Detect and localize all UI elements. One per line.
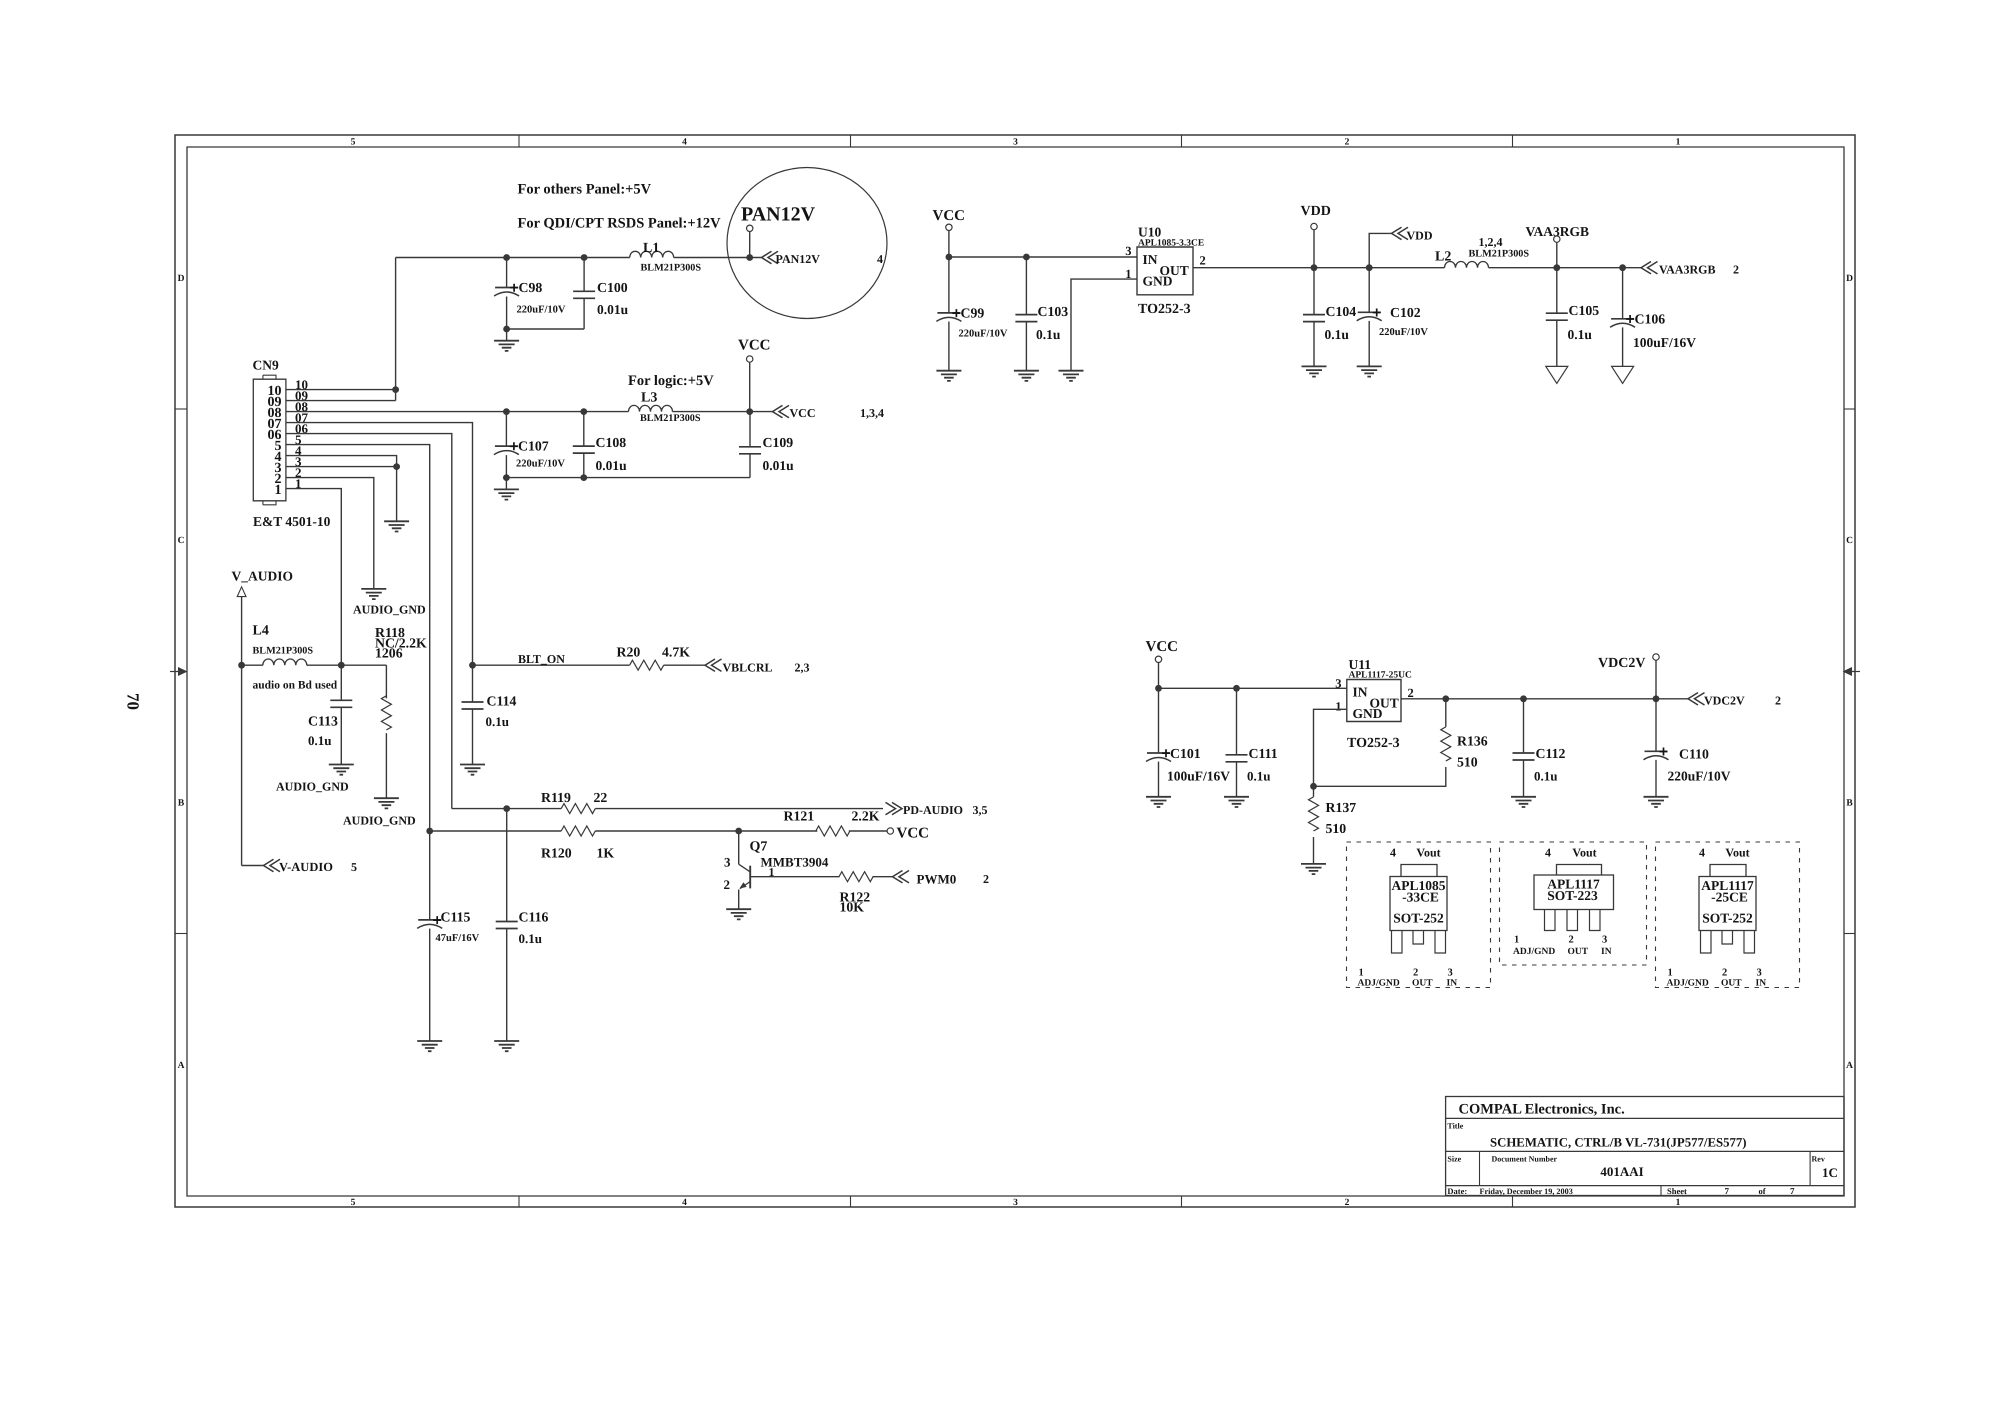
page number 70 — [124, 693, 143, 710]
inductor L1 — [630, 241, 702, 274]
note audio on Bd used — [253, 680, 338, 692]
svg-text:VAA3RGB: VAA3RGB — [1659, 263, 1715, 277]
resistor R118 — [375, 625, 427, 798]
inductor L2 — [1435, 235, 1529, 268]
svg-text:10K: 10K — [840, 900, 865, 915]
svg-text:0.1u: 0.1u — [1247, 769, 1270, 784]
transistor Q7 — [724, 831, 829, 909]
svg-text:Date:: Date: — [1447, 1186, 1467, 1196]
svg-text:ADJ/GND: ADJ/GND — [1667, 979, 1709, 989]
power symbol VCC at U10 — [933, 208, 966, 260]
svg-text:47uF/16V: 47uF/16V — [436, 933, 480, 944]
svg-text:Size: Size — [1447, 1155, 1461, 1164]
zone row dividers left band — [175, 409, 187, 934]
svg-text:Q7: Q7 — [750, 840, 768, 855]
svg-text:SOT-223: SOT-223 — [1547, 888, 1598, 903]
svg-text:APL1085-3.3CE: APL1085-3.3CE — [1138, 238, 1204, 248]
svg-text:2: 2 — [724, 877, 731, 892]
regulator U10 — [1125, 225, 1206, 318]
svg-text:R20: R20 — [617, 645, 641, 660]
wire V-AUDIO stub — [242, 865, 264, 867]
svg-text:C: C — [1846, 536, 1853, 546]
svg-text:BLM21P300S: BLM21P300S — [253, 646, 314, 657]
svg-text:B: B — [1846, 799, 1853, 809]
svg-text:VDC2V: VDC2V — [1598, 656, 1645, 671]
svg-text:3: 3 — [1013, 1198, 1018, 1208]
wire VCC to U11 IN — [1159, 687, 1347, 689]
zone column dividers bottom band — [519, 1196, 1513, 1207]
svg-text:401AAI: 401AAI — [1600, 1164, 1643, 1179]
package drawing APL1085-33CE SOT-252 — [1347, 842, 1491, 989]
svg-text:L3: L3 — [641, 391, 657, 406]
capacitor C108 — [573, 408, 627, 477]
connector CN9 pin labels outside — [295, 377, 309, 491]
PAN12V highlight circle — [727, 168, 887, 319]
svg-text:4: 4 — [1390, 846, 1396, 860]
svg-text:VCC: VCC — [1146, 639, 1179, 655]
svg-text:OUT: OUT — [1721, 979, 1742, 989]
wire R136 bottom to R137 junction — [1314, 767, 1446, 786]
svg-text:3: 3 — [724, 855, 731, 870]
svg-text:audio on Bd used: audio on Bd used — [253, 680, 338, 692]
ground below CN9 pins 4/3 — [384, 521, 409, 531]
capacitor C100 — [573, 254, 629, 329]
svg-text:C104: C104 — [1326, 304, 1357, 319]
ground below C99 — [936, 371, 961, 381]
wire U10 GND pin to ground — [1071, 279, 1137, 371]
wire VCC to U10 IN — [949, 256, 1137, 258]
package drawing APL1117-25CE SOT-252 — [1656, 842, 1800, 989]
svg-text:C114: C114 — [487, 694, 517, 709]
svg-text:70: 70 — [124, 693, 143, 710]
inductor L4 — [238, 624, 313, 669]
svg-text:TO252-3: TO252-3 — [1138, 302, 1191, 317]
svg-text:L1: L1 — [643, 241, 659, 256]
svg-text:SOT-252: SOT-252 — [1393, 911, 1444, 926]
svg-text:R137: R137 — [1326, 800, 1357, 815]
title block Title label — [1447, 1122, 1463, 1131]
svg-text:Friday, December 19, 2003: Friday, December 19, 2003 — [1480, 1187, 1573, 1196]
svg-text:1C: 1C — [1822, 1165, 1838, 1180]
svg-text:L4: L4 — [253, 624, 269, 639]
svg-text:0.1u: 0.1u — [308, 733, 331, 748]
svg-text:0.01u: 0.01u — [597, 302, 629, 317]
svg-text:VBLCRL: VBLCRL — [723, 661, 773, 675]
wire Q7 base to R122 — [750, 876, 892, 878]
ground below C107 — [494, 478, 519, 500]
wire +12V rail drop to CN9 pins 10/09 — [395, 258, 397, 401]
capacitor C110 — [1644, 699, 1731, 797]
svg-text:L2: L2 — [1435, 250, 1451, 265]
capacitor C107 — [494, 408, 566, 477]
svg-text:220uF/10V: 220uF/10V — [517, 305, 566, 316]
svg-text:510: 510 — [1457, 755, 1478, 770]
wire CN9 pin 2 to audio ground — [286, 478, 374, 589]
svg-text:Title: Title — [1447, 1122, 1463, 1131]
svg-text:0.1u: 0.1u — [486, 714, 509, 729]
svg-text:D: D — [178, 274, 185, 284]
right border center arrow — [1843, 667, 1861, 676]
svg-text:Vout: Vout — [1725, 846, 1749, 860]
capacitor C112 — [1513, 695, 1566, 796]
svg-text:OUT: OUT — [1412, 979, 1433, 989]
port VAA3RGB — [1641, 262, 1739, 277]
port VDC2V — [1688, 693, 1781, 708]
svg-text:1K: 1K — [597, 846, 615, 861]
wire R119 net — [452, 805, 883, 812]
svg-text:5: 5 — [351, 138, 356, 148]
zone row dividers right band — [1844, 409, 1855, 934]
svg-text:of: of — [1759, 1186, 1766, 1196]
power symbol VCC at U11 — [1146, 639, 1179, 692]
svg-text:2: 2 — [1722, 968, 1727, 979]
title block schematic title — [1490, 1136, 1747, 1150]
title block frame — [1446, 1097, 1844, 1196]
wire CN9 pin 06 to R119 — [286, 434, 452, 809]
svg-text:C: C — [178, 536, 185, 546]
svg-text:R121: R121 — [784, 809, 815, 824]
svg-text:C101: C101 — [1170, 746, 1201, 761]
svg-text:R120: R120 — [541, 846, 572, 861]
svg-text:PAN12V: PAN12V — [776, 252, 821, 266]
svg-text:C103: C103 — [1038, 304, 1069, 319]
capacitor C98 — [494, 254, 566, 329]
svg-text:2,3: 2,3 — [795, 661, 810, 675]
svg-text:SOT-252: SOT-252 — [1702, 911, 1753, 926]
svg-text:GND: GND — [1143, 274, 1173, 289]
wire CN9 pin 1 to L4 net — [286, 489, 341, 666]
svg-text:ADJ/GND: ADJ/GND — [1513, 947, 1555, 957]
svg-text:1,2,4: 1,2,4 — [1479, 235, 1503, 249]
wire U10 OUT to VAA3RGB — [1193, 267, 1641, 269]
title block Document Number label — [1492, 1155, 1558, 1164]
svg-text:U10: U10 — [1138, 225, 1161, 240]
svg-text:1: 1 — [1514, 935, 1519, 946]
svg-text:VDD: VDD — [1301, 204, 1331, 219]
svg-text:CN9: CN9 — [253, 358, 279, 373]
svg-text:3: 3 — [1602, 935, 1607, 946]
svg-text:A: A — [1846, 1061, 1853, 1071]
svg-text:1: 1 — [1676, 138, 1681, 148]
svg-text:3: 3 — [1335, 677, 1341, 691]
svg-text:1: 1 — [1668, 968, 1673, 979]
svg-text:100uF/16V: 100uF/16V — [1633, 335, 1696, 350]
svg-text:1,3,4: 1,3,4 — [860, 406, 884, 420]
note For logic:+5V — [628, 373, 714, 389]
svg-text:C105: C105 — [1569, 303, 1600, 318]
svg-text:7: 7 — [1790, 1186, 1795, 1196]
svg-text:C110: C110 — [1679, 747, 1709, 762]
power symbol VDC2V — [1598, 654, 1659, 702]
svg-text:A: A — [178, 1061, 185, 1071]
svg-text:COMPAL Electronics, Inc.: COMPAL Electronics, Inc. — [1459, 1102, 1625, 1118]
ground below Q7 — [726, 909, 751, 919]
svg-text:0.01u: 0.01u — [763, 458, 795, 473]
svg-text:2: 2 — [1408, 686, 1414, 700]
regulator U11 — [1335, 657, 1414, 751]
svg-text:3,5: 3,5 — [973, 803, 988, 817]
svg-text:For QDI/CPT RSDS Panel:+12V: For QDI/CPT RSDS Panel:+12V — [518, 216, 722, 232]
svg-text:1206: 1206 — [375, 646, 403, 661]
svg-text:Rev: Rev — [1812, 1155, 1825, 1164]
svg-text:2: 2 — [1413, 968, 1418, 979]
svg-text:BLM21P300S: BLM21P300S — [641, 263, 702, 274]
svg-text:C111: C111 — [1249, 746, 1278, 761]
svg-text:D: D — [1846, 274, 1853, 284]
zone numbers bottom — [351, 1198, 1681, 1208]
svg-text:APL1117-25UC: APL1117-25UC — [1349, 671, 1412, 681]
wire logic VCC rail — [286, 411, 773, 413]
svg-text:2.2K: 2.2K — [852, 809, 880, 824]
svg-text:4: 4 — [877, 252, 883, 266]
wire CN9 pin 5 to R120 — [286, 445, 430, 831]
svg-text:AUDIO_GND: AUDIO_GND — [343, 814, 416, 828]
resistor R136 — [1441, 695, 1488, 769]
svg-text:4: 4 — [682, 138, 687, 148]
svg-text:IN: IN — [1447, 979, 1458, 989]
svg-text:R119: R119 — [541, 790, 571, 805]
svg-text:1: 1 — [1359, 968, 1364, 979]
package drawing APL1117 SOT-223 — [1500, 842, 1647, 965]
power symbol VAA3RGB — [1526, 224, 1590, 271]
wire C107-C109 bottoms — [503, 474, 750, 481]
capacitor C109 — [739, 412, 794, 478]
wire CN9 pin 07 to BLT_ON — [286, 423, 473, 666]
svg-text:1: 1 — [1676, 1198, 1681, 1208]
svg-text:PAN12V: PAN12V — [741, 204, 816, 226]
svg-text:C115: C115 — [441, 910, 471, 925]
note For others Panel:+5V — [518, 182, 652, 198]
port VCC logic — [773, 405, 885, 420]
ground triangle below C106 — [1612, 366, 1634, 383]
title block rev value — [1822, 1165, 1838, 1180]
node PAN12V terminal — [746, 225, 753, 261]
svg-text:2: 2 — [1345, 138, 1350, 148]
svg-text:VCC: VCC — [933, 208, 966, 224]
port V-AUDIO — [264, 859, 358, 874]
svg-text:C98: C98 — [519, 280, 543, 295]
capacitor C111 — [1226, 685, 1278, 797]
svg-text:For logic:+5V: For logic:+5V — [628, 373, 714, 389]
svg-text:3: 3 — [1757, 968, 1762, 979]
capacitor C114 — [462, 665, 517, 764]
svg-text:VDD: VDD — [1407, 228, 1433, 242]
power symbol V_AUDIO — [232, 569, 294, 866]
svg-text:TO252-3: TO252-3 — [1347, 736, 1400, 751]
svg-text:2: 2 — [1733, 263, 1739, 277]
svg-text:For others Panel:+5V: For others Panel:+5V — [518, 182, 652, 198]
power symbol VDD — [1301, 204, 1331, 271]
port VDD — [1392, 227, 1433, 242]
ground below C101 — [1146, 797, 1171, 807]
ground AUDIO_GND pin2 — [353, 589, 426, 617]
svg-text:V_AUDIO: V_AUDIO — [232, 569, 294, 584]
svg-text:BLM21P300S: BLM21P300S — [1469, 249, 1530, 260]
wire CN9 pin 09 — [286, 400, 396, 402]
svg-text:220uF/10V: 220uF/10V — [959, 329, 1008, 340]
ground below C115 — [417, 1041, 442, 1051]
wire CN9 pin 3 — [286, 463, 400, 470]
svg-text:5: 5 — [351, 1198, 356, 1208]
svg-text:0.1u: 0.1u — [1036, 327, 1061, 342]
svg-text:VCC: VCC — [897, 826, 930, 842]
svg-text:IN: IN — [1756, 979, 1767, 989]
inductor L3 — [629, 391, 701, 424]
svg-text:AUDIO_GND: AUDIO_GND — [276, 780, 349, 794]
ground triangle below C105 — [1546, 366, 1568, 383]
ground below C104 — [1302, 366, 1327, 376]
svg-text:22: 22 — [594, 790, 608, 805]
svg-text:3: 3 — [1125, 244, 1131, 258]
svg-text:BLT_ON: BLT_ON — [518, 652, 565, 666]
svg-text:4: 4 — [1699, 846, 1705, 860]
title block company name — [1459, 1102, 1625, 1118]
svg-text:AUDIO_GND: AUDIO_GND — [353, 603, 426, 617]
capacitor C101 — [1146, 688, 1230, 797]
svg-text:IN: IN — [1601, 947, 1612, 957]
wire U11 GND pin down — [1310, 709, 1347, 789]
title block document number value — [1600, 1164, 1643, 1179]
svg-text:4.7K: 4.7K — [662, 645, 690, 660]
svg-text:GND: GND — [1353, 706, 1383, 721]
svg-text:220uF/10V: 220uF/10V — [1668, 769, 1731, 784]
svg-text:1: 1 — [1335, 699, 1341, 713]
svg-text:VCC: VCC — [790, 406, 816, 420]
zone letters left — [178, 274, 185, 1071]
wire CN9 pin 4 to ground — [286, 456, 397, 522]
svg-text:Vout: Vout — [1416, 846, 1440, 860]
svg-text:ADJ/GND: ADJ/GND — [1358, 979, 1400, 989]
port PD-AUDIO — [886, 802, 988, 817]
svg-text:C106: C106 — [1635, 312, 1666, 327]
svg-text:4: 4 — [682, 1198, 687, 1208]
svg-text:C116: C116 — [519, 910, 549, 925]
ground below C103 — [1014, 371, 1039, 381]
svg-text:R136: R136 — [1457, 734, 1488, 749]
ground below C111 — [1224, 797, 1249, 807]
svg-text:BLM21P300S: BLM21P300S — [640, 413, 701, 424]
svg-text:Sheet: Sheet — [1667, 1186, 1687, 1196]
svg-text:C109: C109 — [763, 435, 794, 450]
ground AUDIO_GND below C113 — [276, 765, 354, 794]
svg-text:3: 3 — [1013, 138, 1018, 148]
svg-text:7: 7 — [1725, 1186, 1730, 1196]
port PWM0 — [893, 871, 990, 887]
svg-text:2: 2 — [1569, 935, 1574, 946]
svg-text:OUT: OUT — [1568, 947, 1589, 957]
svg-text:SCHEMATIC, CTRL/B VL-731(JP577: SCHEMATIC, CTRL/B VL-731(JP577/ES577) — [1490, 1136, 1747, 1150]
port PAN12V — [762, 251, 884, 266]
svg-text:C113: C113 — [308, 714, 338, 729]
zone column dividers top band — [519, 135, 1513, 147]
wire L4 to R118 — [307, 664, 387, 666]
wire BLT_ON — [469, 652, 705, 669]
port VBLCRL — [705, 659, 810, 675]
sheet inner border — [187, 147, 1844, 1196]
svg-text:100uF/16V: 100uF/16V — [1167, 769, 1230, 784]
wire R120 net — [426, 828, 887, 835]
ground below C98 — [494, 329, 519, 351]
wire +12V rail — [396, 257, 762, 259]
wire U11 OUT to VDC2V — [1401, 698, 1688, 700]
zone letters right — [1846, 274, 1853, 1071]
svg-text:-33CE: -33CE — [1402, 890, 1439, 905]
svg-text:2: 2 — [983, 872, 989, 886]
svg-text:VDC2V: VDC2V — [1704, 694, 1745, 708]
svg-text:0.1u: 0.1u — [519, 931, 542, 946]
ground below C102 — [1357, 366, 1382, 376]
svg-text:4: 4 — [1545, 846, 1551, 860]
svg-text:E&T 4501-10: E&T 4501-10 — [253, 514, 331, 529]
ground below C114 — [460, 765, 485, 775]
title block Rev label — [1812, 1155, 1825, 1164]
svg-text:220uF/10V: 220uF/10V — [516, 459, 565, 470]
connector CN9 body — [253, 358, 286, 505]
power symbol VCC at R121 — [887, 826, 929, 842]
capacitor C103 — [1015, 254, 1068, 371]
svg-text:Document Number: Document Number — [1492, 1155, 1558, 1164]
title block date row — [1447, 1186, 1795, 1196]
capacitor C102 — [1357, 268, 1429, 367]
svg-text:C100: C100 — [597, 280, 628, 295]
title block Size label — [1447, 1155, 1461, 1164]
svg-text:B: B — [178, 799, 185, 809]
wire CN9 pin 10 — [286, 386, 399, 393]
capacitor C105 — [1546, 268, 1599, 367]
capacitor C116 — [496, 809, 549, 1041]
svg-text:C108: C108 — [596, 435, 627, 450]
resistor R20 — [617, 645, 691, 671]
svg-text:2: 2 — [1775, 694, 1781, 708]
svg-text:5: 5 — [351, 860, 357, 874]
wire C98-C100 bottoms — [503, 326, 584, 333]
note For QDI/CPT RSDS Panel:+12V — [518, 216, 722, 232]
sheet outer border — [175, 135, 1855, 1207]
wire VDD branch — [1366, 233, 1392, 271]
ground below R137 — [1301, 864, 1326, 874]
svg-text:510: 510 — [1326, 821, 1347, 836]
capacitor C106 — [1610, 264, 1696, 366]
svg-text:VCC: VCC — [738, 338, 771, 354]
ground AUDIO_GND below R118 — [343, 798, 416, 827]
svg-text:-25CE: -25CE — [1711, 890, 1748, 905]
svg-text:2: 2 — [1200, 254, 1206, 268]
svg-text:0.1u: 0.1u — [1568, 327, 1593, 342]
ground below U10 — [1059, 371, 1084, 381]
svg-text:2: 2 — [1345, 1198, 1350, 1208]
resistor R122 — [839, 872, 873, 915]
svg-text:C102: C102 — [1390, 305, 1421, 320]
svg-text:C99: C99 — [961, 306, 985, 321]
resistor R121 — [784, 809, 880, 837]
capacitor C115 — [417, 831, 479, 1041]
svg-text:0.1u: 0.1u — [1325, 327, 1350, 342]
resistor R119 — [541, 790, 607, 814]
svg-text:0.1u: 0.1u — [1534, 769, 1557, 784]
svg-text:C112: C112 — [1536, 746, 1566, 761]
resistor R120 — [541, 826, 614, 861]
PAN12V big label — [741, 204, 816, 226]
capacitor C104 — [1303, 268, 1356, 367]
ground below C116 — [494, 1041, 519, 1051]
capacitor C99 — [936, 257, 1008, 371]
resistor R137 — [1309, 786, 1357, 864]
svg-text:IN: IN — [1353, 685, 1368, 700]
svg-text:220uF/10V: 220uF/10V — [1379, 327, 1428, 338]
ground below C112 — [1511, 797, 1536, 807]
svg-text:Vout: Vout — [1572, 846, 1596, 860]
svg-text:PD-AUDIO: PD-AUDIO — [903, 803, 963, 817]
